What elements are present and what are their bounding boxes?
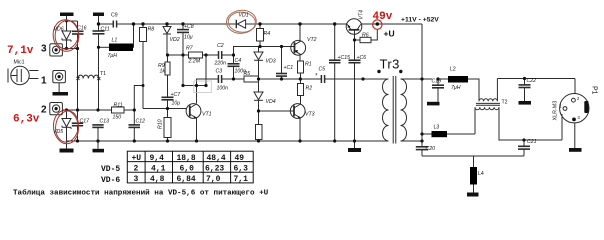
svg-text:R8: R8 [148,27,155,33]
capacitor C5 [320,75,322,83]
svg-text:4,1: 4,1 [151,165,166,174]
svg-text:C13: C13 [100,119,110,125]
svg-text:+C15: +C15 [338,55,351,61]
svg-text:VT3: VT3 [305,112,315,118]
svg-text:VD4: VD4 [266,99,276,105]
capacitor C16 [77,21,79,31]
svg-text:7,1v: 7,1v [7,45,34,57]
wire input row2 [62,109,111,111]
wire bottom rail [67,140,389,142]
wire signal row [197,79,219,103]
wire P1 left lead [524,139,562,141]
wire +U drop right [421,24,423,141]
svg-text:+U: +U [132,154,142,163]
svg-text:6,23: 6,23 [205,165,224,174]
svg-text:7μH: 7μH [451,85,461,91]
wire rail B [234,47,295,56]
capacitor C20 [421,141,423,147]
resistor R5 [244,76,259,82]
svg-text:VD3: VD3 [266,59,276,65]
red annotation ellipses [51,18,81,145]
diode VD1 [235,20,237,28]
svg-text:R5: R5 [244,71,251,77]
svg-text:10μ: 10μ [172,101,181,107]
svg-text:3: 3 [134,175,139,184]
svg-text:+C1: +C1 [284,65,294,71]
svg-text:+C6: +C6 [357,55,367,61]
ground under C13 [93,149,105,153]
svg-text:18,8: 18,8 [177,154,196,163]
wire link row [183,85,206,87]
resistor R9 [167,55,169,62]
svg-text:3: 3 [41,44,47,55]
svg-text:6,3v: 6,3v [13,114,40,126]
circle around VD5 [52,109,81,145]
wire VT2 collector riser [299,24,301,41]
capacitor C1 [281,47,283,74]
ground under C22 [519,101,532,105]
ground under P1 [569,148,582,152]
svg-text:7,1: 7,1 [234,175,249,184]
svg-text:220n: 220n [214,61,227,67]
terminal jack 3 [50,44,63,56]
svg-text:VT1: VT1 [202,112,212,118]
svg-text:VT4: VT4 [359,10,365,20]
svg-text:C21: C21 [527,139,537,145]
resistor R8 [142,24,144,28]
svg-text:R2: R2 [306,86,313,92]
resistor R6 [355,39,361,41]
transistor VT4 [346,19,362,35]
terminal jack 2 [50,103,63,115]
svg-text:T2: T2 [502,100,508,106]
svg-text:R10: R10 [158,119,164,129]
transistor VT1 [186,104,201,119]
svg-text:VD-6: VD-6 [101,176,120,185]
svg-text:4,8: 4,8 [150,175,165,184]
svg-text:2: 2 [134,165,139,174]
svg-text:1: 1 [41,76,47,87]
svg-text:100n: 100n [217,86,229,92]
capacitor C15 [334,24,336,60]
resistor R10 [164,118,171,138]
svg-text:C19: C19 [432,79,442,85]
svg-text:7μH: 7μH [108,53,118,59]
terminal jack 1 [53,71,66,83]
capacitor C13 [92,124,103,126]
capacitor C11 [93,30,105,32]
wire top rail A [98,23,113,25]
circle around VD1 [226,9,257,34]
diode VD5 zener [66,110,68,119]
svg-text:R6: R6 [362,33,369,39]
svg-text:XLR-M3: XLR-M3 [553,101,559,121]
wire VT3 emitter drop [299,118,301,141]
svg-text:49: 49 [235,154,245,163]
svg-text:1k: 1k [160,69,166,75]
capacitor C8 [182,24,184,29]
diode VD6 [66,21,68,31]
connector P1 [560,94,589,123]
svg-text:C11: C11 [101,27,110,33]
svg-text:L4: L4 [478,171,484,177]
ground under L4 [467,193,479,197]
svg-text:6,0: 6,0 [180,165,195,174]
jumper link box annotation [194,81,212,93]
svg-text:Tr3: Tr3 [380,56,400,71]
svg-text:VD1: VD1 [239,13,249,19]
svg-text:VD5: VD5 [53,129,63,135]
svg-text:C4: C4 [235,58,242,64]
capacitor C22 [524,79,526,85]
svg-text:C17: C17 [80,119,91,125]
inductor L1 [109,44,133,52]
ground under C19 [427,102,440,106]
resistor R11 [112,107,125,113]
svg-text:L3: L3 [434,125,440,131]
capacitor C2 [218,51,220,59]
svg-text:R4: R4 [264,31,271,37]
microphone Mic1 [11,66,29,84]
svg-text:VD6: VD6 [54,27,64,33]
resistor R4 [259,24,261,29]
capacitor C9 [112,21,114,28]
inductor L2 [448,76,468,83]
ground bar2 top [93,13,104,17]
capacitor C21 [523,140,525,146]
svg-text:6,3: 6,3 [234,165,249,174]
svg-text:VD-5: VD-5 [101,165,120,174]
wire bottom filter row [422,155,524,157]
svg-text:+U: +U [384,29,395,39]
svg-text:Таблица зависимости напряжений: Таблица зависимости напряжений на VD-5,6… [13,189,269,198]
diode VD3 [258,47,260,53]
ground under VD5 [60,149,74,153]
svg-text:150: 150 [113,115,122,121]
svg-text:C22: C22 [527,78,537,84]
svg-text:+11V - +52V: +11V - +52V [401,17,439,24]
ground main [348,148,361,152]
capacitor C7 [162,96,174,98]
svg-text:7,0: 7,0 [206,175,221,184]
table [127,151,253,183]
svg-text:+C8: +C8 [184,24,194,30]
svg-text:R11: R11 [114,103,123,109]
resistor R1 [299,55,301,61]
svg-text:48,4: 48,4 [207,154,226,163]
diode VD4 [258,79,260,92]
svg-text:R7: R7 [186,46,194,52]
transformer T2 [479,99,497,102]
wire VT3 base [259,110,295,112]
bold black texts [41,17,439,116]
svg-text:C20: C20 [426,146,436,152]
transformer T1 [78,75,99,78]
capacitor C3 [217,75,219,83]
capacitor C17 [77,49,79,124]
svg-text:C16: C16 [77,26,87,32]
wire to C22 and P1 [497,78,575,80]
red node circle 49v [373,20,382,29]
svg-text:T1: T1 [100,71,106,77]
svg-text:L2: L2 [450,67,456,73]
resistor R7 [168,54,189,56]
svg-text:9,4: 9,4 [150,154,165,163]
svg-text:+C7: +C7 [171,92,182,98]
transformer Tr3 [383,79,389,141]
capacitor C12 [133,110,135,125]
svg-text:C3: C3 [216,69,223,75]
wire Tr3 secondary top [401,78,423,80]
capacitor C19 [437,79,439,85]
capacitor C4 [233,55,235,64]
resistor R2 [298,84,304,96]
svg-text:C12: C12 [136,119,146,125]
diode VD2 [166,24,168,27]
capacitor C6 [354,40,356,60]
svg-text:2: 2 [41,105,47,116]
transistor VT2 [291,40,306,55]
svg-text:L1: L1 [112,38,118,44]
svg-text:10μ: 10μ [184,35,193,41]
svg-text:6,84: 6,84 [177,175,196,184]
resistor R3 [258,111,260,125]
ground under jack1 [53,92,69,96]
circle around VD6 [51,18,81,53]
svg-text:49v: 49v [373,11,393,23]
svg-text:VD2: VD2 [170,37,180,43]
svg-text:Mic1: Mic1 [14,60,25,66]
svg-text:P1: P1 [591,86,598,95]
inductor L4 [473,156,475,167]
ground bar1 top [60,13,74,17]
inductor L3 [422,133,432,135]
svg-text:VT2: VT2 [307,37,317,43]
svg-text:C2: C2 [217,43,224,49]
svg-text:2.2M: 2.2M [188,59,201,65]
svg-text:R1: R1 [305,62,312,68]
svg-text:C9: C9 [111,13,118,19]
transistor VT3 [290,104,305,119]
svg-text:C5: C5 [319,67,326,73]
